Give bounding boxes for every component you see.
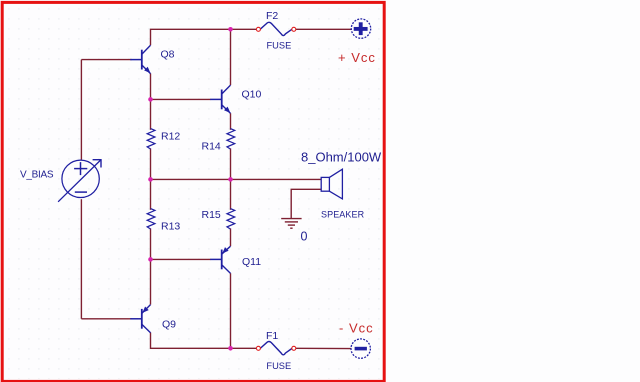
svg-text:V_BIAS: V_BIAS xyxy=(20,170,54,181)
wire output node to speaker xyxy=(151,178,322,180)
svg-text:Q9: Q9 xyxy=(162,318,176,330)
fuse F1 xyxy=(256,330,295,371)
svg-text:R15: R15 xyxy=(202,209,221,221)
wire Q11 base xyxy=(151,258,211,260)
voltage source V_BIAS xyxy=(20,159,102,202)
junction at output node right xyxy=(228,177,233,182)
wire bottom rail left xyxy=(151,333,257,349)
wire Q10 base xyxy=(151,98,211,100)
svg-text:+ Vcc: + Vcc xyxy=(338,50,376,65)
wire left rail bottom xyxy=(80,199,82,319)
wire rail B R12 to R13 xyxy=(150,148,152,209)
wire rail C R15 to Q11 xyxy=(230,228,232,246)
wire Q9 base xyxy=(81,318,131,320)
svg-text:R12: R12 xyxy=(161,131,180,143)
svg-text:R14: R14 xyxy=(202,140,221,152)
junction at R13 top / Q11 base xyxy=(148,257,153,262)
svg-text:FUSE: FUSE xyxy=(266,361,291,371)
wire top rail left xyxy=(151,29,257,45)
resistor R14 xyxy=(202,129,235,153)
wire rail B R13 to Q9 xyxy=(150,228,152,304)
svg-text:SPEAKER: SPEAKER xyxy=(321,210,365,220)
svg-text:- Vcc: - Vcc xyxy=(339,321,374,336)
transistor Q10 xyxy=(210,85,261,113)
resistor R15 xyxy=(202,209,235,229)
resistor R13 xyxy=(147,209,180,233)
svg-text:F1: F1 xyxy=(266,330,278,342)
junction at Q8 emitter / Q10 base xyxy=(148,97,153,102)
wire rail C Q11 to bottom rail xyxy=(230,273,232,348)
svg-text:R13: R13 xyxy=(161,221,180,233)
junction at top rail / Q10 collector xyxy=(228,27,233,32)
transistor Q8 xyxy=(130,45,174,73)
power symbol +Vcc xyxy=(338,19,376,65)
resistor R12 xyxy=(147,129,180,149)
transistor Q11 xyxy=(210,246,261,273)
wire bottom rail right xyxy=(296,347,352,349)
border frame xyxy=(2,2,384,381)
svg-text:F2: F2 xyxy=(266,10,278,22)
wire Q8 base xyxy=(81,59,131,61)
speaker SPEAKER xyxy=(321,169,365,220)
power symbol -Vcc xyxy=(339,321,374,359)
wire top rail right xyxy=(296,28,352,30)
ground 0 xyxy=(281,219,301,229)
wire speaker return to ground xyxy=(291,189,321,218)
junction at bottom rail / Q11 xyxy=(228,346,233,351)
svg-text:Q8: Q8 xyxy=(161,49,175,61)
wire rail C top to Q10 collector xyxy=(230,29,232,85)
wire rail C R14 to R15 xyxy=(230,148,232,209)
junction at output node left xyxy=(148,177,153,182)
wire rail B Q8 emitter to R12 xyxy=(150,73,152,129)
svg-text:Q10: Q10 xyxy=(242,89,262,101)
transistor Q9 xyxy=(130,305,176,333)
svg-text:8_Ohm/100W: 8_Ohm/100W xyxy=(301,149,382,164)
wire left rail top xyxy=(80,60,82,160)
svg-text:0: 0 xyxy=(301,229,308,243)
svg-text:FUSE: FUSE xyxy=(267,41,292,51)
svg-text:Q11: Q11 xyxy=(242,256,261,268)
fuse F2 xyxy=(256,10,295,51)
wire rail C Q10 emitter to R14 xyxy=(230,113,232,130)
